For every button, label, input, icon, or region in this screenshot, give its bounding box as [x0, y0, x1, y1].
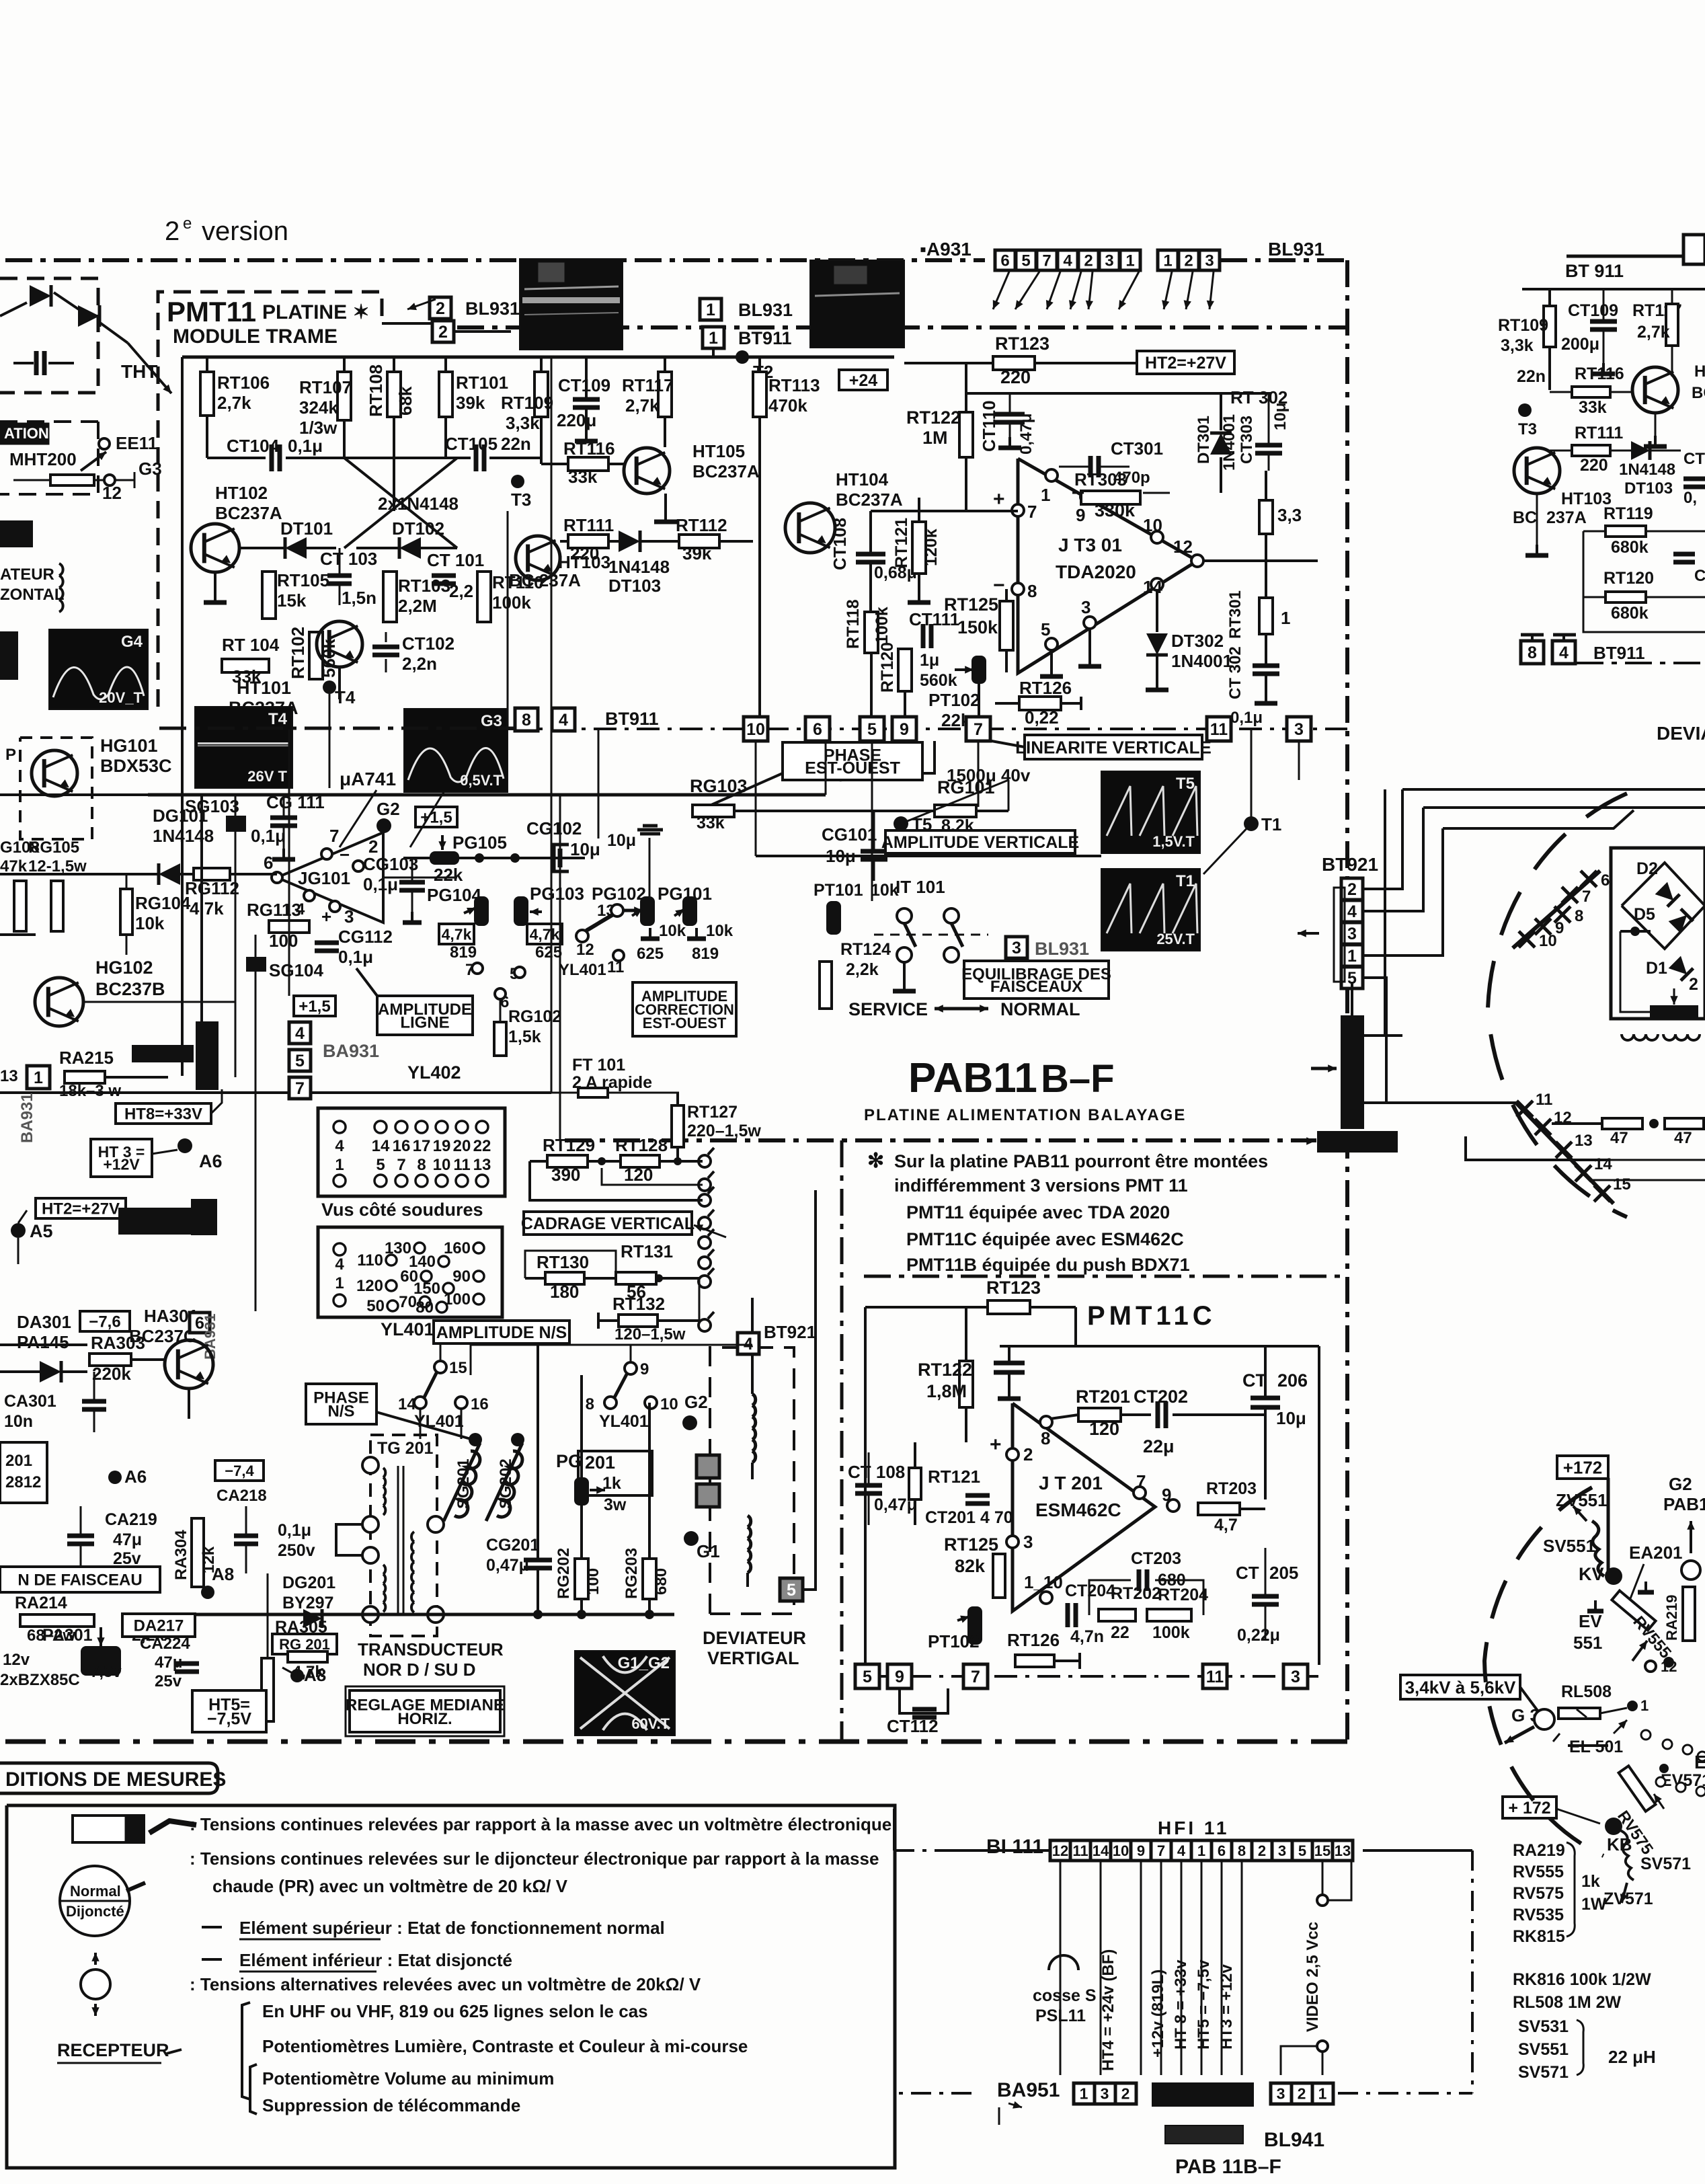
- svg-text:PG102: PG102: [592, 884, 646, 904]
- svg-text:Dijoncté: Dijoncté: [66, 1903, 124, 1920]
- svg-text:CA301: CA301: [4, 1392, 56, 1411]
- svg-text:5: 5: [867, 720, 877, 739]
- connector 1 BL931 BT911: [700, 299, 721, 320]
- node T3 r: [1518, 403, 1532, 417]
- wire A5 rail: [17, 1238, 19, 1264]
- svg-text:7: 7: [1157, 1842, 1165, 1859]
- connector BT911 top right: [1683, 235, 1705, 264]
- transformer terminals: [362, 1457, 379, 1473]
- svg-text:5: 5: [1298, 1842, 1306, 1859]
- svg-text:1: 1: [1640, 1697, 1649, 1714]
- svg-text:2: 2: [1084, 252, 1093, 270]
- svg-text:−7,5V: −7,5V: [207, 1709, 251, 1728]
- svg-text:CT: CT: [1242, 1370, 1267, 1391]
- svg-text:HT102: HT102: [215, 483, 268, 503]
- svg-text:▪A931: ▪A931: [920, 239, 972, 260]
- svg-text:3: 3: [1347, 925, 1357, 943]
- svg-text:20: 20: [453, 1137, 471, 1155]
- cosse S: [1049, 1955, 1078, 1970]
- svg-text:3w: 3w: [604, 1495, 627, 1514]
- svg-text:CT 103: CT 103: [320, 549, 377, 569]
- photo G1_G2: [575, 1651, 675, 1735]
- svg-text:100: 100: [269, 931, 298, 951]
- svg-text:12: 12: [576, 941, 594, 959]
- wire BA931 drops: [181, 730, 184, 1076]
- svg-text:13: 13: [1335, 1842, 1351, 1859]
- pot PT102 b: [967, 1606, 982, 1645]
- svg-text:RT101: RT101: [456, 373, 508, 393]
- svg-text:BDX53C: BDX53C: [100, 756, 172, 776]
- svg-text:50: 50: [366, 1297, 385, 1315]
- svg-text:22 μH: 22 μH: [1608, 2047, 1656, 2067]
- svg-text:5: 5: [1021, 252, 1030, 270]
- svg-text:3: 3: [1277, 2084, 1285, 2102]
- resistor RG203: [643, 1559, 656, 1599]
- hatched connectors deviateur: [697, 1455, 719, 1478]
- svg-text:9: 9: [1162, 1485, 1171, 1505]
- svg-text:BL931: BL931: [1035, 939, 1089, 959]
- svg-text:7: 7: [971, 1668, 980, 1686]
- svg-text:SV531: SV531: [1518, 2017, 1569, 2036]
- node T5: [894, 816, 908, 831]
- switch IT101a: [897, 908, 912, 923]
- svg-text:SG201: SG201: [454, 1458, 473, 1509]
- svg-text:HG101: HG101: [100, 736, 158, 756]
- pot PG201: [574, 1477, 589, 1506]
- svg-text:26V T: 26V T: [247, 768, 287, 785]
- PMT11C top dash-dot: [864, 1275, 1347, 1278]
- wire long vertical d: [742, 357, 744, 724]
- svg-text:10k: 10k: [706, 922, 733, 940]
- legend arrow circle: [81, 1969, 110, 1999]
- svg-text:8: 8: [417, 1156, 426, 1174]
- wire PAB dash-dot: [565, 1138, 1316, 1142]
- node T3: [511, 475, 524, 488]
- transistor HT103 r: [1514, 448, 1560, 494]
- svg-text:ZV571: ZV571: [1603, 1889, 1653, 1908]
- svg-text:90: 90: [452, 1267, 471, 1286]
- svg-text:D2: D2: [1636, 859, 1658, 878]
- svg-text:8: 8: [1027, 581, 1037, 601]
- svg-text:DA217: DA217: [134, 1617, 184, 1635]
- svg-text:TDA2020: TDA2020: [1056, 561, 1136, 582]
- svg-text:7: 7: [329, 826, 339, 846]
- svg-text:YL402: YL402: [407, 1062, 461, 1083]
- capacitor CT112: [872, 741, 935, 773]
- svg-text:9: 9: [1076, 505, 1085, 525]
- svg-text:680k: 680k: [1611, 538, 1649, 557]
- svg-text:4: 4: [1347, 902, 1357, 921]
- svg-text:33k: 33k: [568, 467, 598, 487]
- resistor RT106: [206, 357, 208, 372]
- svg-text:EST-OUEST: EST-OUEST: [805, 758, 900, 777]
- svg-text:33k: 33k: [697, 814, 725, 832]
- svg-text:10k: 10k: [135, 913, 165, 933]
- connector 4 BT921 b: [738, 1333, 759, 1354]
- svg-text:120k: 120k: [922, 529, 941, 566]
- svg-text:20V_T: 20V_T: [99, 689, 143, 706]
- svg-text:100k: 100k: [492, 592, 531, 613]
- label CONDITIONS DE MESURES: [0, 1763, 218, 1793]
- svg-text:EE11: EE11: [116, 433, 157, 453]
- label HT5: [192, 1690, 266, 1732]
- svg-text:82k: 82k: [955, 1556, 986, 1576]
- svg-text:819: 819: [450, 943, 477, 962]
- op-amp JG101: [277, 832, 383, 923]
- capacitor PG101 top: [637, 826, 663, 834]
- node KV: [1605, 1567, 1622, 1585]
- label PHASE N/S: [306, 1384, 376, 1424]
- svg-text:μA741: μA741: [340, 769, 396, 789]
- wire midleft horizontals: [0, 793, 235, 796]
- svg-text:1μ: 1μ: [920, 651, 939, 670]
- diode pair top-left dashed box: [0, 278, 98, 393]
- svg-text:22: 22: [1111, 1623, 1129, 1642]
- svg-text:8: 8: [1528, 643, 1537, 662]
- legend bracket: [242, 2002, 250, 2099]
- svg-text:2: 2: [1347, 880, 1357, 899]
- svg-text:CG102: CG102: [526, 818, 582, 838]
- svg-text:10k: 10k: [659, 922, 686, 940]
- svg-text:CG101: CG101: [822, 824, 877, 845]
- svg-text:CT102: CT102: [402, 633, 454, 654]
- svg-text:RT105: RT105: [277, 570, 329, 590]
- resistor MHT row: [50, 475, 94, 485]
- svg-text:BI 111: BI 111: [986, 1836, 1043, 1858]
- label +24: [839, 370, 887, 390]
- wire deviateur links: [582, 1341, 719, 1343]
- resistor RT101: [444, 357, 447, 372]
- svg-text:7: 7: [1136, 1471, 1146, 1491]
- svg-text:Potentiomètres Lumière, Con: Potentiomètres Lumière, Contraste et Cou…: [262, 2036, 748, 2056]
- svg-text:PG103: PG103: [530, 884, 584, 904]
- svg-text:70: 70: [399, 1293, 417, 1311]
- svg-text:RT122: RT122: [918, 1360, 972, 1380]
- photo T1: [1101, 869, 1200, 951]
- capacitor CT r2: [1673, 552, 1695, 557]
- svg-text:A6: A6: [199, 1151, 223, 1171]
- svg-text:220: 220: [1000, 367, 1031, 387]
- photo G4: [49, 629, 148, 709]
- svg-text:RT124: RT124: [840, 940, 891, 959]
- wire op-amp top feed: [966, 392, 1271, 395]
- svg-text:3,3k: 3,3k: [506, 413, 540, 433]
- box 201 2812: [0, 1442, 47, 1503]
- svg-text:237A: 237A: [1546, 508, 1587, 527]
- svg-text:PMT11B équipée du push BDX: PMT11B équipée du push BDX71: [906, 1255, 1190, 1275]
- svg-text:390: 390: [551, 1165, 580, 1185]
- svg-text:100k: 100k: [873, 607, 891, 644]
- svg-text:10μ: 10μ: [607, 831, 636, 850]
- svg-text:10: 10: [1143, 515, 1162, 535]
- svg-text:3: 3: [1081, 597, 1091, 617]
- node A8: [201, 1586, 214, 1599]
- svg-text:AMPLITUDE VERTICALE: AMPLITUDE VERTICALE: [881, 833, 1079, 852]
- svg-text:PAB11: PAB11: [908, 1055, 1037, 1101]
- svg-text:BA931: BA931: [323, 1041, 379, 1061]
- svg-text:3: 3: [1291, 1668, 1300, 1686]
- svg-text:625: 625: [637, 945, 664, 963]
- label EQUILIBRAGE DES FAISCEAUX: [964, 961, 1109, 999]
- svg-text:LINEARITE VERTICALE: LINEARITE VERTICALE: [1015, 737, 1212, 757]
- svg-text:BT911: BT911: [1593, 643, 1645, 663]
- svg-text:60V.T: 60V.T: [631, 1715, 670, 1732]
- svg-text:RT121: RT121: [892, 518, 911, 568]
- svg-text:RV535: RV535: [1513, 1906, 1564, 1924]
- wire long vertical b: [507, 511, 509, 728]
- svg-text:BC237B: BC237B: [95, 979, 165, 999]
- label AMPLITUDE N/S: [434, 1321, 569, 1343]
- svg-text:39k: 39k: [682, 543, 712, 563]
- resistor RG104: [120, 889, 132, 935]
- svg-text:7: 7: [1027, 502, 1037, 522]
- svg-text:RK816 100k 1/2W: RK816 100k 1/2W: [1513, 1970, 1651, 1989]
- black blob HT8: [132, 1046, 193, 1062]
- svg-text:G3: G3: [138, 459, 162, 479]
- svg-text:1: 1: [706, 301, 715, 319]
- node A6 lower: [108, 1471, 122, 1484]
- svg-text:RT117: RT117: [622, 375, 674, 395]
- wire long vertical a: [551, 357, 553, 1093]
- svg-text:RV555: RV555: [1513, 1863, 1564, 1881]
- photo G3: [404, 709, 508, 792]
- svg-text:BA931: BA931: [18, 1093, 36, 1143]
- svg-text:1: 1: [1347, 947, 1357, 966]
- svg-text:FAISCEAUX: FAISCEAUX: [990, 978, 1082, 996]
- svg-text:TRANSDUCTEUR: TRANSDUCTEUR: [358, 1639, 504, 1660]
- svg-text:80: 80: [415, 1298, 434, 1317]
- wire JG out: [383, 877, 457, 879]
- svg-text:PMT11: PMT11: [167, 296, 256, 327]
- svg-text:11: 11: [453, 1156, 470, 1174]
- svg-text:7: 7: [1582, 888, 1591, 906]
- svg-text:25V.T: 25V.T: [1156, 931, 1195, 947]
- label +1,5 a: [415, 807, 457, 827]
- svg-text:EA201: EA201: [1629, 1543, 1683, 1563]
- svg-text:1,5V.T: 1,5V.T: [1152, 833, 1195, 850]
- yoke crossed line bottom: [1516, 1103, 1614, 1204]
- svg-text:220k: 220k: [92, 1364, 131, 1384]
- svg-text:BT911: BT911: [738, 328, 792, 348]
- svg-text:47: 47: [1674, 1129, 1692, 1147]
- svg-text:PMT11 équipée avec TDA: PMT11 équipée avec TDA 2020: [906, 1202, 1170, 1222]
- resistor RT112: [679, 535, 719, 548]
- svg-text:RT106: RT106: [217, 373, 270, 393]
- svg-text:T1: T1: [1176, 872, 1195, 890]
- mid vertical rails: [235, 795, 237, 1077]
- svg-text:2,2n: 2,2n: [402, 654, 437, 674]
- svg-text:version: version: [202, 217, 288, 246]
- svg-text:PMT11C équipée avec ESM462: PMT11C équipée avec ESM462C: [906, 1229, 1184, 1249]
- svg-text:HT 8 = +33v: HT 8 = +33v: [1172, 1959, 1190, 2050]
- svg-text:CT202: CT202: [1134, 1387, 1188, 1407]
- photo T4: [195, 707, 292, 788]
- svg-text:1: 1: [1163, 252, 1172, 270]
- svg-text:BL931: BL931: [738, 300, 793, 320]
- svg-text:2: 2: [438, 323, 448, 342]
- svg-text:DG201: DG201: [282, 1573, 335, 1592]
- svg-text:14: 14: [372, 1137, 390, 1155]
- svg-text:1_10: 1_10: [1024, 1572, 1063, 1592]
- wire amplitude row: [470, 1345, 472, 1375]
- resistor RT117: [664, 357, 666, 372]
- yoke wires nested: [1402, 788, 1705, 791]
- svg-text:DT301: DT301: [1195, 416, 1213, 464]
- svg-text:CT201: CT201: [925, 1508, 976, 1527]
- svg-text:47: 47: [1610, 1129, 1628, 1147]
- svg-text:PG104: PG104: [427, 885, 481, 905]
- node KB: [1605, 1818, 1622, 1835]
- svg-text:RT113: RT113: [768, 375, 820, 395]
- black blob BA951: [1152, 2083, 1253, 2106]
- svg-text:BT921: BT921: [764, 1322, 816, 1342]
- svg-text:BY297: BY297: [282, 1594, 333, 1612]
- svg-text:T5: T5: [1176, 775, 1195, 793]
- resistor RT122: [959, 412, 973, 457]
- coil SG202: [497, 1451, 522, 1517]
- svg-text:17: 17: [413, 1137, 431, 1155]
- wire connector bus dash-dot: [508, 728, 1347, 730]
- connector 11: [1207, 717, 1231, 741]
- svg-text:819: 819: [692, 945, 719, 963]
- svg-text:CA218: CA218: [216, 1487, 267, 1505]
- label CADRAGE VERTICAL: [524, 1212, 692, 1235]
- svg-text:2: 2: [1689, 975, 1698, 994]
- svg-text:N DE FAISCEAU: N DE FAISCEAU: [17, 1571, 142, 1590]
- svg-text:MODULE TRAME: MODULE TRAME: [173, 325, 338, 348]
- svg-text:HT4 = +24v (BF): HT4 = +24v (BF): [1099, 1949, 1117, 2071]
- svg-text:HT104: HT104: [836, 469, 889, 490]
- svg-text:FT 101: FT 101: [572, 1056, 625, 1075]
- svg-text:RT128: RT128: [615, 1135, 668, 1155]
- svg-text:EST-OUEST: EST-OUEST: [643, 1015, 727, 1031]
- svg-text:22n: 22n: [1517, 367, 1546, 386]
- svg-text:RT116: RT116: [563, 438, 615, 459]
- svg-text:RT131: RT131: [621, 1241, 673, 1261]
- svg-text:HT5 = −7,5v: HT5 = −7,5v: [1195, 1959, 1213, 2050]
- svg-text:10: 10: [433, 1156, 451, 1174]
- svg-text:CG112: CG112: [338, 927, 393, 947]
- svg-text:D5: D5: [1634, 905, 1655, 924]
- svg-text:2,7k: 2,7k: [217, 393, 251, 413]
- svg-text:RG105: RG105: [28, 838, 79, 857]
- resistor RA219 r: [1683, 1587, 1695, 1641]
- svg-text:130: 130: [385, 1239, 411, 1257]
- transformer TG201 dashed box: [370, 1435, 437, 1636]
- svg-text:13: 13: [473, 1156, 491, 1174]
- svg-text:1k: 1k: [1581, 1872, 1600, 1891]
- svg-text:551: 551: [1573, 1633, 1602, 1653]
- wire east-west verticals: [1008, 780, 1010, 811]
- svg-text:0,1μ: 0,1μ: [251, 826, 286, 846]
- svg-text:PLATINE ✶: PLATINE ✶: [262, 301, 370, 323]
- connector 2 BL931: [430, 297, 451, 319]
- wire bar links: [1363, 1034, 1402, 1037]
- resistor RG112: [194, 868, 230, 880]
- resistor RV575: [1619, 1766, 1656, 1811]
- svg-text:RT301: RT301: [1226, 590, 1244, 639]
- svg-text:DITIONS DE MESURES: DITIONS DE MESURES: [5, 1768, 226, 1791]
- svg-text:10: 10: [660, 1395, 678, 1413]
- svg-text:HORIZ.: HORIZ.: [397, 1710, 452, 1728]
- svg-text:12-1,5w: 12-1,5w: [28, 857, 87, 875]
- svg-text:KV: KV: [1579, 1564, 1604, 1584]
- svg-text:CG103: CG103: [363, 854, 418, 874]
- svg-text:EV: EV: [1579, 1611, 1602, 1631]
- node A5: [11, 1223, 26, 1238]
- svg-text:BC237A: BC237A: [692, 461, 760, 481]
- wire cadrage loop: [530, 1161, 703, 1200]
- wire BT921 to yoke: [1363, 789, 1402, 889]
- connector black blob on dash line: [1318, 1132, 1397, 1152]
- svg-text:120: 120: [356, 1277, 383, 1295]
- pin circles fan: [1641, 1730, 1651, 1740]
- text 680 loop: [1089, 1580, 1131, 1615]
- resistor RT123: [904, 362, 993, 364]
- resistor RT127: [672, 1105, 684, 1147]
- svg-text:1,5k: 1,5k: [508, 1027, 541, 1046]
- svg-text:3: 3: [1012, 939, 1021, 958]
- svg-text:16: 16: [393, 1137, 411, 1155]
- svg-text:+24: +24: [849, 371, 878, 390]
- svg-text:4,7k: 4,7k: [292, 1663, 324, 1681]
- panel vus cote soudures 2: [318, 1227, 502, 1317]
- svg-text:15k: 15k: [277, 590, 307, 611]
- svg-text:220: 220: [1580, 456, 1608, 475]
- svg-text:RT121: RT121: [928, 1467, 980, 1487]
- label N DE FAISCEAU: [0, 1567, 160, 1592]
- svg-text:−7,4: −7,4: [225, 1462, 254, 1479]
- svg-text:10k: 10k: [871, 881, 899, 900]
- panel vus cote soudures 1: [318, 1108, 505, 1196]
- yoke lower wires: [1610, 1159, 1705, 1161]
- svg-text:: Tensions alternatives re: : Tensions alternatives relevées avec un…: [190, 1974, 701, 1994]
- wire bottom drop from T4: [329, 694, 331, 788]
- svg-text:SG202: SG202: [497, 1458, 515, 1509]
- svg-text:4,7k: 4,7k: [530, 925, 560, 943]
- svg-text:CG201: CG201: [486, 1536, 539, 1555]
- svg-text:G4: G4: [121, 633, 143, 651]
- svg-text:G1_G2: G1_G2: [618, 1654, 670, 1672]
- resistor RT107: [343, 357, 346, 372]
- resistor RT109 r: [1544, 306, 1556, 347]
- connector HFI11 row: [1050, 1840, 1070, 1861]
- svg-text:16: 16: [471, 1395, 489, 1413]
- svg-text:2,2M: 2,2M: [398, 596, 437, 616]
- svg-text:ATION: ATION: [4, 425, 49, 442]
- svg-text:1: 1: [1041, 485, 1050, 505]
- svg-text:NORMAL: NORMAL: [1000, 999, 1080, 1019]
- svg-text:39k: 39k: [456, 393, 485, 413]
- connector 7: [966, 717, 990, 741]
- svg-text:1,8M: 1,8M: [926, 1381, 967, 1401]
- diode DT302: [1156, 590, 1158, 632]
- svg-text:+12v (819L): +12v (819L): [1149, 1969, 1167, 2058]
- svg-text:BC 237A: BC 237A: [509, 570, 581, 590]
- svg-text:RK815: RK815: [1513, 1927, 1565, 1946]
- svg-text:5: 5: [376, 1156, 385, 1174]
- svg-text:T3: T3: [511, 490, 531, 510]
- svg-text:JG101: JG101: [298, 868, 350, 888]
- svg-text:6: 6: [1218, 1842, 1226, 1859]
- transistor HA301: [165, 1340, 213, 1389]
- wire HG102 bus: [0, 933, 36, 936]
- svg-text:4,7: 4,7: [1214, 1516, 1238, 1534]
- wire op-amp out: [1203, 559, 1318, 562]
- svg-text:2: 2: [436, 299, 445, 318]
- svg-text:25v: 25v: [155, 1672, 182, 1690]
- svg-text:RT120: RT120: [1603, 569, 1654, 588]
